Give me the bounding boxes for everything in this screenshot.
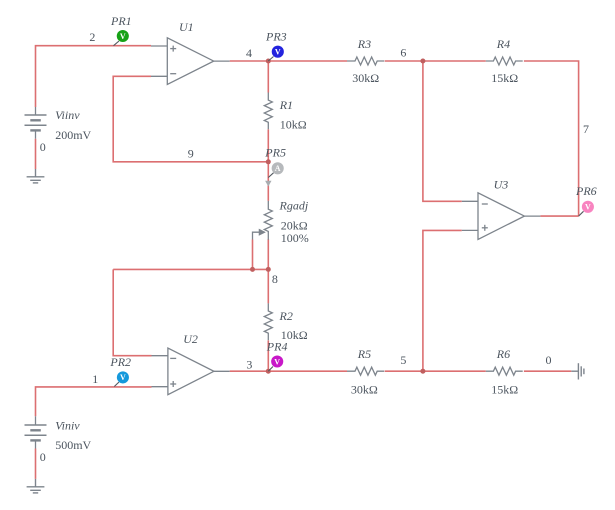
ground (Viinv) xyxy=(27,169,45,183)
wire net 2: source top to U1 plus xyxy=(36,46,152,107)
svg-text:30kΩ: 30kΩ xyxy=(352,71,379,85)
svg-text:15kΩ: 15kΩ xyxy=(491,383,518,397)
resistor R3 xyxy=(347,57,384,65)
wire node 6 to U3 minus input xyxy=(423,61,462,201)
wire R2 bottom to node 3 xyxy=(267,340,269,371)
wire node 9 down to Rgadj xyxy=(267,162,269,201)
junction node 3 xyxy=(266,369,271,374)
resistor R2 xyxy=(264,303,272,340)
voltage source Viinv xyxy=(25,107,47,139)
wire node 8 to U2 minus input xyxy=(113,269,151,355)
svg-text:U2: U2 xyxy=(183,332,198,346)
wire net 1: source Viniv to U2 plus xyxy=(36,387,152,416)
potentiometer Rgadj xyxy=(253,201,273,240)
svg-text:Rgadj: Rgadj xyxy=(279,198,309,212)
svg-text:4: 4 xyxy=(246,46,252,60)
svg-text:PR5: PR5 xyxy=(264,145,286,159)
ground (Viniv) xyxy=(27,479,45,493)
svg-text:PR2: PR2 xyxy=(109,355,131,369)
probe PR6 xyxy=(579,201,594,216)
svg-text:PR4: PR4 xyxy=(266,340,288,354)
svg-text:2: 2 xyxy=(89,30,95,44)
svg-text:R5: R5 xyxy=(357,347,371,361)
svg-text:V: V xyxy=(585,203,591,212)
svg-text:Viniv: Viniv xyxy=(55,419,80,433)
svg-text:R4: R4 xyxy=(496,37,510,51)
junction node 5 xyxy=(420,369,425,374)
svg-text:V: V xyxy=(120,32,126,41)
wire node 4 down to R1 xyxy=(267,61,269,93)
wire net 4: U1 output to R3 xyxy=(230,60,347,62)
voltage source Viniv xyxy=(25,416,47,448)
svg-text:V: V xyxy=(275,48,281,57)
svg-text:7: 7 xyxy=(583,122,589,136)
svg-text:A: A xyxy=(275,164,281,173)
svg-text:R3: R3 xyxy=(357,37,371,51)
svg-text:5: 5 xyxy=(400,353,406,367)
svg-text:R6: R6 xyxy=(496,347,510,361)
svg-text:30kΩ: 30kΩ xyxy=(351,383,378,397)
wire U3 output to node 7 xyxy=(540,215,578,217)
wire node 8 horizontal xyxy=(113,268,268,270)
svg-text:9: 9 xyxy=(188,147,194,161)
svg-text:PR1: PR1 xyxy=(110,14,132,28)
wire net 6: R3 to R4 xyxy=(385,60,486,62)
svg-text:500mV: 500mV xyxy=(55,438,91,452)
svg-text:U3: U3 xyxy=(494,177,509,191)
svg-text:200mV: 200mV xyxy=(55,128,91,142)
wire source Viinv bottom to ground xyxy=(35,139,37,169)
wire net 3: U2 output to R5 xyxy=(230,370,347,372)
probe PR5 current xyxy=(265,162,284,186)
probe PR2 xyxy=(114,371,129,386)
op-amp U3 xyxy=(462,193,541,240)
op-amp U2 xyxy=(152,348,230,395)
wire Rgadj wiper down to node 8 xyxy=(252,240,254,270)
svg-text:15kΩ: 15kΩ xyxy=(491,71,518,85)
op-amp U1 xyxy=(151,38,230,85)
probe PR3 xyxy=(268,46,284,61)
junction node 4 xyxy=(266,59,271,64)
probe PR1 xyxy=(114,30,129,46)
wire net 5: R5 to R6 xyxy=(385,370,486,372)
junction node 8 wiper xyxy=(250,267,255,272)
wire node 5 to U3 plus input xyxy=(423,230,462,371)
resistor R4 xyxy=(486,57,523,65)
wire R1 bottom to node 9 xyxy=(267,129,269,162)
wire node 8 down to R2 xyxy=(267,269,269,303)
probe PR4 xyxy=(268,355,283,371)
svg-text:0: 0 xyxy=(40,140,46,154)
junction node 8 xyxy=(266,267,271,272)
svg-text:6: 6 xyxy=(400,46,406,60)
wire net 9: U1 minus feedback loop xyxy=(113,76,269,162)
svg-text:PR6: PR6 xyxy=(575,184,597,198)
svg-text:PR3: PR3 xyxy=(265,29,287,43)
junction node 9 (PR5) xyxy=(266,159,271,164)
ground (node 0 right, rotated) xyxy=(571,363,584,379)
svg-text:0: 0 xyxy=(546,353,552,367)
svg-text:R2: R2 xyxy=(279,309,293,323)
svg-text:Viinv: Viinv xyxy=(55,108,80,122)
resistor R1 xyxy=(264,93,272,130)
svg-text:U1: U1 xyxy=(179,20,194,34)
resistor R5 xyxy=(347,367,384,375)
svg-text:3: 3 xyxy=(246,357,252,371)
svg-text:100%: 100% xyxy=(281,231,309,245)
wire source Viniv bottom to ground xyxy=(35,449,37,479)
junction node 6 xyxy=(420,59,425,64)
wire net 7: R4 right down to U3 output xyxy=(524,61,579,216)
svg-text:10kΩ: 10kΩ xyxy=(280,117,307,131)
svg-text:1: 1 xyxy=(92,372,98,386)
wire net 0: R6 to ground xyxy=(524,370,571,372)
wire Rgadj bottom to node 8 xyxy=(267,239,269,269)
svg-text:0: 0 xyxy=(40,450,46,464)
svg-text:V: V xyxy=(274,357,280,366)
svg-text:V: V xyxy=(120,373,126,382)
svg-text:8: 8 xyxy=(272,272,278,286)
resistor R6 xyxy=(486,367,523,375)
svg-text:R1: R1 xyxy=(279,98,293,112)
